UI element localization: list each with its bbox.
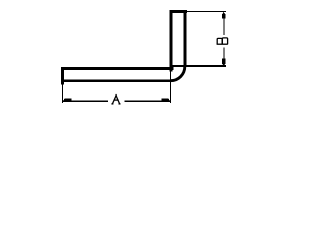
label A	[111, 94, 120, 104]
extension line A left	[62, 81, 64, 103]
horizontal leg top edge	[63, 67, 174, 70]
arrow B bottom	[222, 58, 226, 66]
dimension line A left segment	[63, 100, 109, 102]
horizontal leg bottom edge	[63, 79, 171, 82]
left end cap	[61, 67, 64, 84]
dimension line B lower segment	[223, 47, 225, 64]
extension line B top	[187, 11, 227, 13]
label B (rotated)	[217, 38, 228, 44]
top end cap	[170, 10, 187, 13]
arrow A right	[161, 98, 170, 102]
extension line B bottom	[171, 65, 227, 67]
arrow B top	[222, 12, 226, 19]
extension line A right	[170, 67, 172, 104]
arrow A left	[63, 98, 72, 102]
vertical leg right edge	[183, 10, 186, 67]
dimension line B upper segment	[223, 13, 225, 35]
dimension line A right segment	[124, 100, 170, 102]
bend outer arc	[171, 67, 185, 81]
vertical leg left edge	[170, 10, 173, 72]
